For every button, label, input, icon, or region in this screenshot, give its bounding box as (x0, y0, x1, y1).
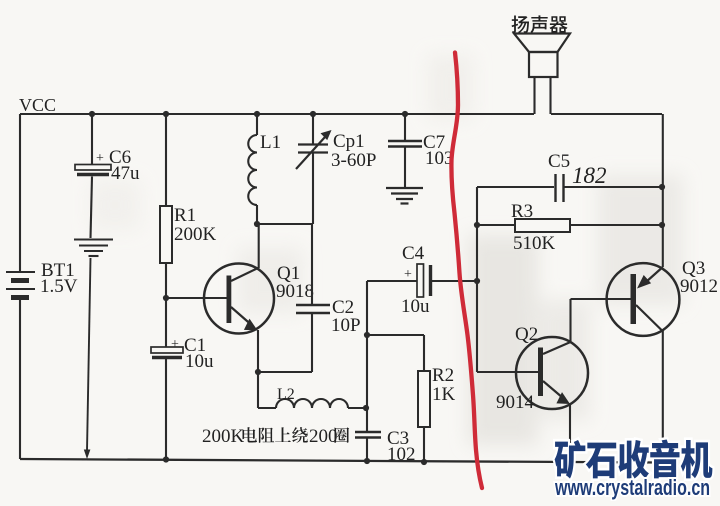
node junction dot bottom rail at Q2 emitter (567, 459, 573, 465)
wire emitter down to L2 (257, 372, 259, 408)
svg-text:102: 102 (387, 444, 416, 465)
node junction dot node R1/C1/Q1-base (163, 295, 169, 301)
red hand-drawn divider line (451, 53, 482, 489)
wire VCC to L1 (256, 114, 258, 135)
node junction dot right rail at C5 (659, 184, 665, 190)
capacitor C1 10u electrolytic (151, 347, 183, 353)
svg-text:3-60P: 3-60P (331, 150, 376, 171)
capacitor C7 103 (388, 141, 422, 147)
node junction dot bottom rail at C1 (163, 456, 169, 462)
wire R3 to right rail (570, 224, 662, 226)
wire left edge from VCC down to battery + (19, 114, 21, 271)
wire VCC to R1 (165, 114, 167, 206)
wire Q1 collector riser (258, 224, 260, 268)
wire VCC top rail left segment (20, 113, 534, 115)
wire VCC to Cp1 (312, 114, 314, 144)
inductor L2 (276, 399, 348, 408)
node junction dot VCC rail at R1 (163, 111, 169, 117)
node junction dot node B at R2 branch (364, 332, 370, 338)
node junction dot VCC rail at C6 (89, 111, 95, 117)
wire node B to C4 + (367, 280, 417, 282)
svg-text:10u: 10u (185, 351, 214, 372)
resistor R2 1K (418, 371, 430, 427)
svg-text:182: 182 (572, 163, 607, 188)
node junction dot right rail at R3 (659, 222, 665, 228)
svg-text:L1: L1 (260, 132, 281, 153)
node junction dot node L2 right / C3 / node-B riser (363, 405, 369, 411)
resistor R1 200K (160, 206, 172, 263)
wire R2 top lead (423, 335, 425, 371)
node junction dot node L1/Cp1 bottom (254, 221, 260, 227)
capacitor C4 10u electrolytic (417, 264, 424, 297)
svg-text:9012: 9012 (680, 276, 718, 297)
wire C5 to right rail (564, 186, 662, 188)
svg-text:1.5V: 1.5V (40, 276, 78, 297)
wire Q3 collector to bottom rail (662, 330, 664, 462)
wire node A vertical (C5/R3/C4/Q2 base) (476, 187, 478, 372)
svg-text:L2: L2 (277, 386, 295, 403)
watermark 矿石收音机 (555, 439, 713, 478)
wire to L2 left (258, 407, 276, 409)
node junction dot VCC rail at C7 (402, 111, 408, 117)
wire node A to C5 (477, 186, 554, 188)
svg-text:9014: 9014 (496, 392, 535, 413)
resistor R3 510K (515, 219, 570, 232)
svg-text:+: + (171, 337, 179, 352)
capacitor C5 182 (556, 174, 564, 202)
ground symbol below C6 (74, 240, 113, 257)
wire C7 to ground (404, 148, 406, 188)
wire C1 to bottom rail (165, 359, 167, 459)
node junction dot node A at R3 (474, 222, 480, 228)
variable capacitor Cp1 3-60P (296, 137, 328, 169)
wire top rail right segment (speaker return) (551, 113, 662, 115)
svg-text:Q2: Q2 (515, 324, 538, 345)
svg-text:+: + (404, 267, 412, 282)
svg-text:R3: R3 (511, 201, 533, 222)
wire Q2 emitter to bottom rail (569, 404, 571, 462)
wire node B to R2 top (367, 334, 424, 336)
wire rail to C7 (404, 114, 406, 140)
svg-text:200K: 200K (174, 224, 217, 245)
wire tank to C2 (311, 224, 313, 304)
node junction dot node Q1 emitter / C2 / L2 (255, 369, 261, 375)
svg-text:510K: 510K (513, 233, 556, 254)
transistor Q3 9012 PNP (607, 263, 680, 336)
wire C3 to bottom rail (366, 439, 368, 462)
transistor Q1 9018 NPN (204, 264, 274, 334)
wire bottom ground rail (20, 459, 662, 463)
svg-text:200: 200 (309, 426, 338, 447)
wire Q2 collector to Q3 base (571, 298, 631, 300)
wire node A to R3 (477, 224, 515, 226)
capacitor C6 47u electrolytic (75, 165, 111, 171)
text 圈 of winding note (335, 427, 350, 443)
wire Q2 collector riser (569, 299, 571, 343)
wire L2 right to node B (348, 407, 366, 409)
svg-text:C4: C4 (402, 243, 425, 264)
svg-text:103: 103 (425, 148, 454, 169)
wire Cp1 bottom (312, 153, 314, 224)
svg-text:R1: R1 (174, 205, 196, 226)
node junction dot VCC rail at L1 (254, 111, 260, 117)
capacitor C2 10P (296, 305, 330, 313)
svg-text:10P: 10P (331, 315, 361, 336)
svg-text:9018: 9018 (276, 281, 314, 302)
svg-text:R2: R2 (432, 365, 454, 386)
wire Q1 emitter drop (257, 330, 259, 372)
wire VCC to C6 + (91, 114, 93, 165)
text 扬声器 speaker label (512, 15, 568, 33)
wire battery - down to bottom rail (19, 300, 21, 459)
svg-text:www.crystalradio.cn: www.crystalradio.cn (554, 475, 710, 500)
svg-text:Cp1: Cp1 (333, 131, 365, 152)
transistor Q2 9014 NPN (516, 337, 588, 409)
svg-text:47u: 47u (111, 163, 140, 184)
speaker symbol (514, 34, 570, 53)
svg-text:1K: 1K (432, 384, 456, 405)
text 电阻上绕 of winding note (243, 427, 308, 443)
svg-text:VCC: VCC (19, 95, 56, 115)
wire R2 bottom to rail (423, 427, 425, 462)
wire node B vertical (C4/R2/L2/C3) (366, 281, 368, 431)
wire R1 bottom to node at Q1 base / C1 (165, 263, 167, 347)
inductor L1 (248, 135, 257, 205)
wire right rail speaker to Q3 emitter (662, 114, 664, 267)
arrowhead at bottom of ground continuation wire (84, 450, 91, 460)
wire emitter to C2 (258, 371, 312, 373)
battery BT1 (6, 272, 35, 298)
wire tank bottom connecting L1 and Cp1 (257, 223, 313, 225)
node junction dot bottom rail at R2 (421, 459, 427, 465)
wire C6 - to ground symbol (91, 177, 93, 239)
node junction dot VCC rail at Cp1 (310, 111, 316, 117)
wire L1 bottom (256, 205, 258, 224)
node junction dot bottom rail at C3 (364, 458, 370, 464)
svg-text:+: + (96, 151, 104, 166)
wire to Q1 base (166, 297, 227, 299)
wire node A to Q2 base (477, 371, 538, 373)
svg-text:200K: 200K (202, 426, 245, 447)
svg-text:C5: C5 (548, 151, 570, 172)
wire C4 to node A (432, 280, 477, 282)
node junction dot node A at C4 (474, 278, 480, 284)
wire ground symbol continuation down to bottom rail (87, 258, 91, 451)
svg-text:10u: 10u (401, 296, 430, 317)
ground symbol below C7 (386, 188, 423, 204)
capacitor C3 102 (355, 432, 381, 438)
wire C2 bottom to emitter line (311, 314, 313, 372)
